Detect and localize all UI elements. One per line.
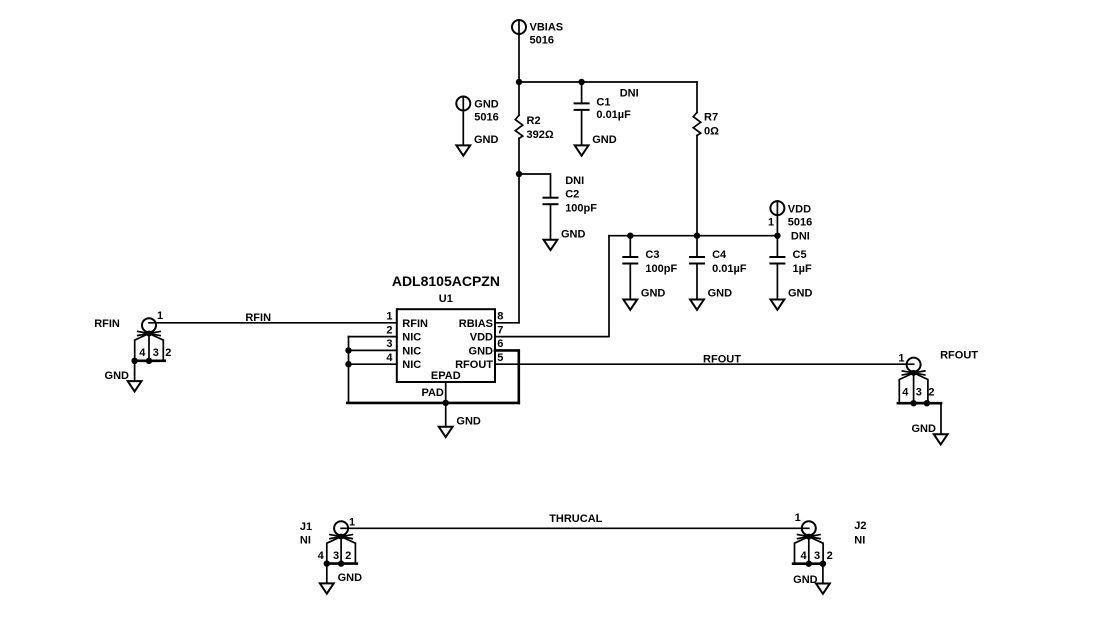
svg-text:GND: GND — [561, 228, 586, 240]
svg-text:1: 1 — [386, 311, 392, 323]
svg-text:RFOUT: RFOUT — [940, 349, 978, 361]
svg-text:3: 3 — [153, 347, 159, 359]
svg-text:J2: J2 — [854, 520, 866, 532]
svg-text:NIC: NIC — [402, 345, 421, 357]
svg-text:4: 4 — [902, 386, 909, 398]
svg-text:3: 3 — [333, 550, 339, 562]
svg-text:RFIN: RFIN — [94, 318, 120, 330]
svg-text:DNI: DNI — [565, 175, 584, 187]
svg-text:EPAD: EPAD — [431, 370, 461, 382]
svg-text:U1: U1 — [439, 293, 453, 305]
svg-text:5016: 5016 — [474, 112, 498, 124]
svg-text:PAD: PAD — [421, 387, 443, 399]
svg-text:4: 4 — [318, 550, 325, 562]
svg-text:C2: C2 — [565, 189, 579, 201]
svg-text:2: 2 — [386, 324, 392, 336]
svg-text:GND: GND — [641, 288, 666, 300]
svg-text:2: 2 — [345, 550, 351, 562]
svg-text:RBIAS: RBIAS — [459, 318, 493, 330]
svg-text:ADL8105ACPZN: ADL8105ACPZN — [392, 273, 500, 289]
svg-text:5: 5 — [497, 352, 503, 364]
svg-text:392Ω: 392Ω — [527, 129, 554, 141]
svg-text:0.01µF: 0.01µF — [712, 263, 747, 275]
svg-text:8: 8 — [497, 311, 503, 323]
svg-text:4: 4 — [139, 347, 146, 359]
svg-text:4: 4 — [801, 550, 808, 562]
svg-text:2: 2 — [928, 386, 934, 398]
svg-text:1: 1 — [768, 217, 774, 229]
svg-text:GND: GND — [456, 415, 481, 427]
svg-text:0Ω: 0Ω — [704, 126, 719, 138]
svg-text:2: 2 — [827, 550, 833, 562]
svg-text:C5: C5 — [793, 249, 807, 261]
svg-text:NI: NI — [854, 535, 865, 547]
svg-text:GND: GND — [474, 134, 499, 146]
svg-text:2: 2 — [165, 347, 171, 359]
svg-text:GND: GND — [793, 574, 818, 586]
svg-text:GND: GND — [788, 288, 813, 300]
svg-text:NIC: NIC — [402, 332, 421, 344]
svg-text:C3: C3 — [645, 249, 659, 261]
svg-text:3: 3 — [916, 386, 922, 398]
svg-text:GND: GND — [592, 134, 617, 146]
svg-text:100pF: 100pF — [565, 203, 597, 215]
svg-text:GND: GND — [708, 288, 733, 300]
svg-text:RFOUT: RFOUT — [455, 359, 493, 371]
svg-text:3: 3 — [814, 550, 820, 562]
svg-text:4: 4 — [386, 352, 393, 364]
svg-text:GND: GND — [474, 99, 499, 111]
svg-text:VDD: VDD — [470, 332, 493, 344]
svg-text:THRUCAL: THRUCAL — [549, 513, 602, 525]
svg-text:RFIN: RFIN — [402, 318, 428, 330]
svg-text:NI: NI — [300, 535, 311, 547]
svg-text:C4: C4 — [712, 249, 727, 261]
svg-text:GND: GND — [338, 572, 363, 584]
svg-text:NIC: NIC — [402, 359, 421, 371]
svg-text:5016: 5016 — [788, 217, 812, 229]
svg-text:J1: J1 — [300, 521, 312, 533]
svg-text:7: 7 — [497, 324, 503, 336]
svg-text:GND: GND — [105, 370, 130, 382]
svg-text:R7: R7 — [704, 112, 718, 124]
svg-text:0.01µF: 0.01µF — [596, 109, 631, 121]
svg-text:1: 1 — [349, 517, 355, 529]
svg-text:DNI: DNI — [620, 87, 639, 99]
svg-text:RFOUT: RFOUT — [703, 353, 741, 365]
svg-text:R2: R2 — [527, 115, 541, 127]
svg-text:6: 6 — [497, 338, 503, 350]
svg-text:GND: GND — [911, 423, 936, 435]
svg-text:1: 1 — [795, 512, 801, 524]
svg-text:1: 1 — [157, 310, 163, 322]
svg-text:100pF: 100pF — [645, 263, 677, 275]
svg-text:1µF: 1µF — [793, 263, 812, 275]
svg-text:C1: C1 — [596, 97, 610, 109]
svg-text:RFIN: RFIN — [245, 312, 271, 324]
svg-text:DNI: DNI — [791, 230, 810, 242]
svg-text:VDD: VDD — [788, 204, 811, 216]
svg-text:1: 1 — [898, 352, 904, 364]
svg-text:5016: 5016 — [530, 35, 554, 47]
svg-text:3: 3 — [386, 338, 392, 350]
svg-text:GND: GND — [469, 345, 494, 357]
svg-text:VBIAS: VBIAS — [530, 22, 564, 34]
